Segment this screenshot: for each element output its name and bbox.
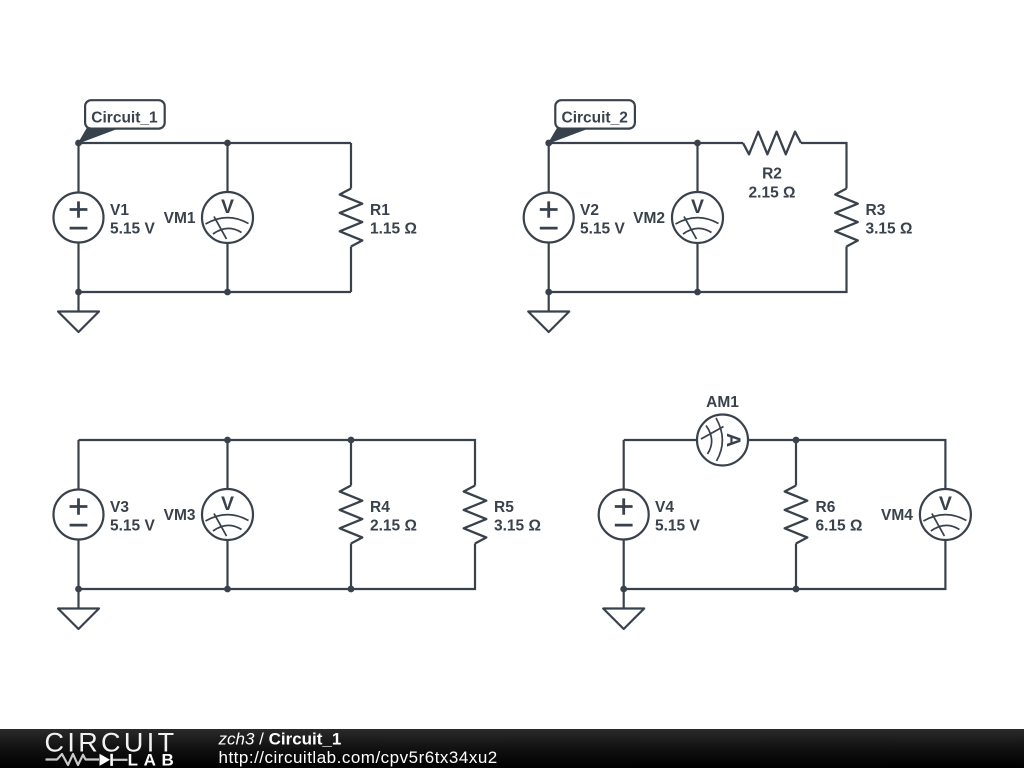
node dot R6 top — [793, 437, 800, 444]
ammeter AM1 — [697, 415, 748, 466]
node dot V1 bottom — [75, 289, 82, 296]
resistor R4 — [340, 486, 363, 544]
wire V4 branch — [623, 440, 625, 589]
node dot top-left circuit 2 — [545, 140, 552, 147]
svg-text:VM3: VM3 — [164, 507, 196, 524]
node dot VM2 bottom — [694, 289, 701, 296]
voltage source V3 — [54, 490, 104, 540]
svg-text:VM4: VM4 — [881, 507, 913, 524]
wire top rail circuit 4 left part — [624, 439, 697, 441]
voltmeter VM1 — [202, 192, 253, 243]
svg-text:V4: V4 — [655, 499, 674, 516]
svg-text:R5: R5 — [494, 499, 514, 516]
wire top rail circuit 2 left part — [549, 142, 743, 144]
resistor R1 — [340, 189, 363, 247]
svg-text:R2: R2 — [762, 166, 782, 183]
wire R6 branch — [795, 440, 797, 589]
svg-text:Circuit_1: Circuit_1 — [91, 109, 158, 126]
logo diode symbol — [100, 754, 111, 766]
wire VM2 branch — [696, 143, 698, 292]
wire R1 branch — [350, 143, 352, 292]
wire top rail circuit 2 right part — [801, 143, 847, 189]
svg-text:V2: V2 — [580, 202, 599, 219]
wire bottom rail circuit 2 — [549, 247, 847, 293]
node dot VM1 top — [224, 140, 231, 147]
wire VM3 branch — [226, 440, 228, 589]
svg-text:3.15 Ω: 3.15 Ω — [494, 518, 541, 535]
node dot R4 bottom — [348, 586, 355, 593]
svg-text:3.15 Ω: 3.15 Ω — [866, 221, 913, 238]
node dot V2 bottom — [545, 289, 552, 296]
wire bottom rail circuit 4 — [624, 541, 946, 590]
svg-text:R4: R4 — [370, 499, 390, 516]
svg-text:http://circuitlab.com/cpv5r6tx: http://circuitlab.com/cpv5r6tx34xu2 — [219, 748, 498, 767]
svg-text:Circuit_2: Circuit_2 — [562, 109, 628, 126]
logo resistor squiggle — [46, 754, 100, 765]
svg-text:VM2: VM2 — [633, 210, 665, 227]
wire bottom rail circuit 1 — [79, 291, 352, 293]
voltage source V2 — [524, 193, 574, 243]
ground circuit 2 — [528, 292, 569, 332]
svg-text:5.15 V: 5.15 V — [580, 221, 625, 238]
svg-text:V1: V1 — [110, 202, 129, 219]
node dot top-left circuit 1 — [75, 140, 82, 147]
svg-text:V3: V3 — [110, 499, 129, 516]
wire VM1 branch — [226, 143, 228, 292]
svg-text:2.15 Ω: 2.15 Ω — [749, 184, 796, 201]
svg-text:6.15 Ω: 6.15 Ω — [816, 518, 863, 535]
svg-text:5.15 V: 5.15 V — [655, 518, 700, 535]
wire R4 branch — [350, 440, 352, 589]
svg-text:VM1: VM1 — [164, 210, 196, 227]
resistor R3 — [835, 189, 858, 247]
wire V2 branch — [548, 143, 550, 292]
node label bubble Circuit_1 — [79, 100, 165, 143]
resistor R2 — [743, 132, 801, 155]
svg-text:LAB: LAB — [128, 750, 180, 768]
node dot VM3 top — [224, 437, 231, 444]
svg-text:5.15 V: 5.15 V — [110, 518, 155, 535]
ground circuit 3 — [58, 589, 99, 629]
node dot R4 top — [348, 437, 355, 444]
svg-text:AM1: AM1 — [706, 394, 739, 411]
node dot R6 bottom — [793, 586, 800, 593]
ground circuit 4 — [603, 589, 644, 629]
wire top rail circuit 1 — [79, 142, 352, 144]
wire bottom rail circuit 3 — [79, 544, 476, 590]
wire V3 branch — [77, 440, 79, 589]
svg-text:1.15 Ω: 1.15 Ω — [370, 221, 417, 238]
svg-text:R1: R1 — [370, 202, 390, 219]
voltage source V4 — [599, 490, 649, 540]
svg-text:5.15 V: 5.15 V — [110, 221, 155, 238]
node label bubble Circuit_2 — [549, 100, 635, 143]
node dot V4 bottom — [620, 586, 627, 593]
svg-text:R3: R3 — [866, 202, 886, 219]
resistor R6 — [785, 486, 808, 544]
voltmeter VM3 — [202, 489, 253, 540]
ground circuit 1 — [58, 292, 99, 332]
wire V1 branch — [77, 143, 79, 292]
voltmeter VM4 — [920, 489, 971, 540]
svg-text:zch3 / Circuit_1: zch3 / Circuit_1 — [218, 730, 342, 749]
svg-text:R6: R6 — [816, 499, 836, 516]
node dot VM2 top — [694, 140, 701, 147]
node dot VM1 bottom — [224, 289, 231, 296]
wire top rail circuit 4 right part — [748, 440, 945, 489]
resistor R5 — [464, 486, 487, 544]
svg-text:2.15 Ω: 2.15 Ω — [370, 518, 417, 535]
voltmeter VM2 — [672, 192, 723, 243]
wire top rail circuit 3 — [79, 440, 476, 486]
voltage source V1 — [54, 193, 104, 243]
node dot V3 bottom — [75, 586, 82, 593]
node dot VM3 bottom — [224, 586, 231, 593]
